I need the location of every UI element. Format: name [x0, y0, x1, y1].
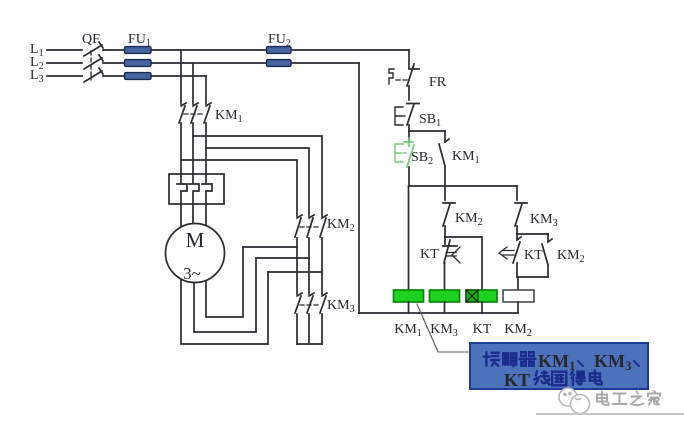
fuse FU1-2 — [125, 60, 152, 67]
char 器 — [520, 352, 536, 366]
char 接 — [484, 352, 500, 366]
svg-text:KM2: KM2 — [327, 217, 355, 234]
breaker QF pole 2 — [84, 55, 103, 69]
char 电 — [597, 392, 609, 406]
char 触 — [503, 353, 516, 366]
contact KM1 auxiliary (NO) — [439, 131, 449, 186]
wire rail to KM1 coil — [408, 186, 410, 290]
wire tap to KM2 pole (inner) — [181, 160, 297, 216]
breaker QF pole 1 — [84, 42, 103, 56]
contact KM2 auxiliary (NO) — [542, 234, 552, 277]
leader line to callout — [417, 304, 468, 352]
svg-text:KM1: KM1 — [215, 108, 243, 125]
wire tap to KM2 pole (middle) — [206, 148, 309, 216]
fuse FU2-1 — [267, 47, 292, 54]
wire drop L1 — [180, 50, 182, 104]
wire bottom bus — [359, 312, 518, 314]
svg-text:KT: KT — [524, 248, 543, 263]
wire tap middle U to KM2 pole2 — [256, 257, 309, 259]
contactor KM2 main pole 1 — [295, 215, 302, 294]
KM3 linkage dashed — [300, 304, 318, 306]
FR dashed link — [396, 79, 408, 81]
char 得 — [571, 371, 585, 385]
coil KM1 — [394, 290, 424, 302]
wire L3 horizontal — [47, 75, 206, 77]
wire control left rail — [358, 63, 360, 313]
KM1 linkage dashed — [184, 113, 202, 115]
svg-text:KT: KT — [473, 322, 492, 337]
fuse FU2-2 — [267, 60, 292, 67]
start button SB2 (NO, green) — [408, 131, 410, 141]
contactor KM1 main pole 1 — [179, 103, 186, 174]
char 之 — [631, 392, 644, 406]
wire control right rail top — [408, 50, 410, 68]
svg-text:KM2: KM2 — [455, 211, 483, 228]
wire control bus — [409, 185, 517, 187]
svg-text:KM1: KM1 — [394, 322, 422, 339]
thermal relay FR contact (NC) — [407, 64, 419, 100]
wire tap inner U to KM2 pole1 — [243, 246, 297, 248]
svg-text:KM1: KM1 — [452, 149, 480, 166]
wire tap outer U to KM2 pole3 — [268, 271, 322, 273]
watermark logo — [559, 388, 590, 414]
svg-text:KM2: KM2 — [557, 248, 585, 265]
wire drop L3 — [205, 76, 207, 104]
char 电 — [590, 371, 602, 385]
KT delay arrow symbol — [499, 247, 514, 259]
wire tap to KM2 pole (outer) — [193, 136, 322, 216]
wire L2 horizontal — [47, 62, 359, 64]
labels control side — [394, 75, 584, 339]
wire parallel split — [517, 233, 548, 235]
wire KM2 coil bottom — [517, 302, 519, 313]
contactor KM1 main pole 2 — [191, 103, 198, 174]
wire drop L2 — [192, 63, 194, 104]
mark 、 — [578, 361, 583, 366]
svg-text:KT: KT — [504, 370, 530, 390]
contactor KM3 main pole 2 — [307, 293, 314, 344]
contact KT (NO delayed) — [513, 234, 521, 277]
labels power side — [30, 32, 355, 315]
wire KM3 coil bottom — [444, 302, 446, 313]
SB1 dashed link — [402, 115, 407, 117]
fuse FU1-1 — [125, 47, 152, 54]
contactor KM1 main pole 3 — [204, 103, 211, 174]
wire KT coil bottom — [481, 302, 483, 313]
svg-text:KM2: KM2 — [504, 322, 532, 339]
coil KM2 — [503, 290, 534, 302]
svg-text:FR: FR — [429, 75, 447, 90]
svg-text:KM3: KM3 — [530, 212, 558, 229]
FR heater element 2 — [189, 174, 199, 235]
char 线 — [534, 371, 549, 385]
QF linkage dashed — [90, 51, 92, 80]
node junction SB1 bottom — [409, 130, 445, 132]
wire motor lead 2 (middle U) — [194, 258, 256, 332]
coil KM3 — [430, 290, 460, 302]
wire tap to KT coil — [445, 237, 482, 290]
contact KM3 (NC) — [515, 186, 527, 234]
FR heater element 1 — [177, 174, 187, 235]
fuse FU1-3 — [125, 73, 152, 80]
KT delay symbol — [446, 247, 460, 263]
wire L1 horizontal — [47, 49, 409, 51]
callout text line 1 — [484, 352, 536, 366]
coil KT x-box — [466, 290, 478, 302]
contactor KM2 main pole 3 — [320, 215, 327, 294]
svg-text:KT: KT — [420, 247, 439, 262]
watermark text 电工之家 — [597, 391, 660, 405]
char 圈 — [552, 372, 566, 386]
wire KM1 coil bottom — [408, 302, 410, 313]
svg-text:SB2: SB2 — [411, 150, 433, 167]
contactor KM3 main pole 1 — [295, 293, 302, 344]
wire motor lead 1 (outer U) — [181, 270, 268, 344]
svg-text:KM3: KM3 — [327, 298, 355, 315]
mark 、 — [634, 361, 639, 366]
stop button SB1 (NC) — [407, 104, 419, 132]
contact KT (NC delayed) — [443, 237, 457, 290]
callout box — [470, 343, 648, 389]
thermal relay FR box — [169, 174, 224, 204]
motor M circle — [166, 224, 225, 283]
wire KM3 star bus — [297, 343, 322, 345]
contactor KM2 main pole 2 — [307, 215, 314, 294]
svg-text:FU2: FU2 — [268, 32, 291, 49]
FR element symbol — [389, 69, 394, 84]
breaker QF pole 3 — [84, 68, 103, 82]
svg-text:3~: 3~ — [183, 264, 201, 283]
FR heater element 3 — [202, 174, 212, 235]
gray rule bottom right — [536, 413, 684, 415]
KM2 linkage dashed — [300, 226, 318, 228]
char 家 — [648, 391, 660, 405]
coil KT — [466, 290, 497, 302]
svg-text:KM3: KM3 — [430, 322, 458, 339]
wire parallel join — [517, 277, 548, 290]
svg-text:M: M — [186, 228, 205, 252]
svg-text:FU1: FU1 — [128, 32, 151, 49]
svg-text:QF: QF — [82, 32, 100, 47]
char 工 — [613, 394, 627, 405]
contactor KM3 main pole 3 — [320, 293, 327, 344]
svg-text:SB1: SB1 — [419, 112, 441, 129]
wire motor lead 3 (inner U) — [206, 247, 243, 317]
contact KM2 (NC) — [443, 186, 455, 237]
wire below SB2 — [408, 167, 410, 186]
SB1 button bracket — [395, 107, 403, 125]
